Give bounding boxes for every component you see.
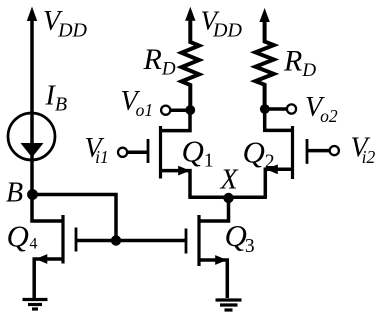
current source IB [8, 113, 55, 160]
transistor Q3 [116, 198, 229, 298]
arrow VDD left [27, 7, 37, 22]
svg-text:RD: RD [143, 43, 176, 80]
terminal Vo2 [287, 104, 296, 113]
terminal Vi2 [330, 146, 339, 155]
transistor Q1 [128, 110, 191, 197]
svg-text:VDD: VDD [43, 6, 88, 42]
node mirror gate junction [111, 235, 121, 245]
svg-text:Q2: Q2 [243, 135, 275, 173]
svg-text:Q4: Q4 [7, 219, 38, 254]
svg-text:Q3: Q3 [225, 218, 255, 257]
node Vo2 [260, 104, 270, 114]
svg-text:X: X [220, 165, 239, 196]
terminal Vi1 [118, 148, 127, 157]
svg-text:B: B [6, 178, 23, 209]
svg-text:Vo2: Vo2 [305, 92, 338, 126]
resistor RD2 [255, 18, 273, 109]
transistor Q4 [34, 215, 116, 298]
svg-text:Q1: Q1 [182, 134, 214, 172]
svg-text:Vi2: Vi2 [351, 133, 376, 168]
resistor RD1 [182, 17, 200, 110]
arrow VDD right [259, 8, 269, 22]
node B [27, 189, 38, 200]
node X [223, 193, 233, 203]
transistor Q2 [265, 109, 330, 197]
svg-text:IB: IB [45, 81, 68, 116]
ground under Q4 [23, 300, 48, 310]
svg-text:RD: RD [283, 45, 316, 82]
wire node B to mirror gate [33, 195, 117, 241]
svg-text:Vi1: Vi1 [85, 133, 109, 167]
svg-text:Vo1: Vo1 [121, 86, 154, 120]
arrow VDD mid [185, 7, 195, 21]
node Vo1 [185, 105, 195, 115]
wire Vo1 stub [171, 108, 190, 112]
wire Vo2 stub [265, 107, 286, 111]
ground under Q3 [216, 300, 242, 310]
svg-text:VDD: VDD [201, 6, 243, 42]
wire X rail [188, 196, 267, 200]
terminal Vo1 [161, 106, 170, 115]
wire left VDD rail [32, 14, 63, 221]
